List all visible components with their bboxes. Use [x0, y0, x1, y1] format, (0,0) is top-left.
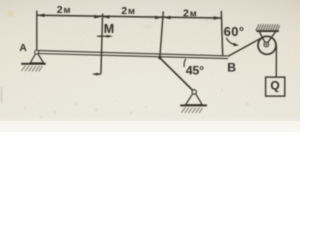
svg-text:60°: 60°	[224, 24, 245, 39]
svg-text:B: B	[227, 60, 236, 74]
svg-text:2м: 2м	[57, 4, 71, 16]
svg-text:2м: 2м	[183, 8, 197, 20]
svg-text:2м: 2м	[121, 5, 135, 17]
svg-text:Q: Q	[270, 78, 279, 92]
svg-text:45°: 45°	[186, 64, 204, 78]
svg-text:M: M	[104, 22, 114, 36]
svg-text:A: A	[19, 43, 27, 54]
